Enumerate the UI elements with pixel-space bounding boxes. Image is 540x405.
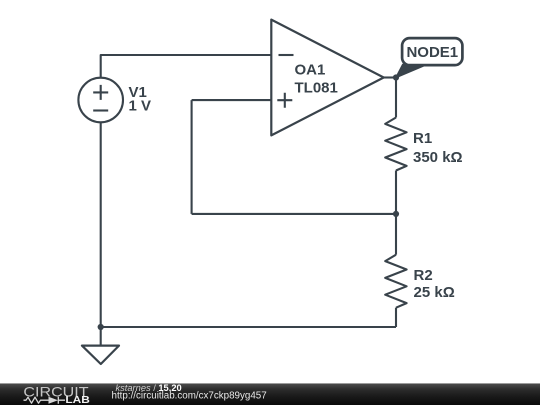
junction dot at op-amp output: [393, 74, 399, 80]
svg-text:http://circuitlab.com/cx7ckp89: http://circuitlab.com/cx7ckp89yg457: [112, 391, 267, 402]
junction dot at ground: [98, 324, 104, 330]
node NODE1 flag box: [402, 38, 462, 65]
voltage source V1: [78, 78, 123, 123]
svg-text:R2: R2: [414, 267, 433, 284]
footer top hairline: [0, 383, 540, 384]
wire non-inverting input stub: [192, 99, 272, 101]
wire bottom return to V1: [101, 326, 396, 328]
op-amp non-inverting input plus sign: [277, 93, 292, 108]
wire R2 bottom lead: [395, 308, 397, 327]
V1 plus sign: [93, 85, 108, 100]
wire V1 bottom to ground junction: [100, 122, 102, 327]
resistor R1 zigzag: [385, 118, 406, 171]
svg-text:25 kΩ: 25 kΩ: [414, 284, 455, 301]
svg-text:OA1: OA1: [295, 62, 326, 79]
op-amp OA1 triangle: [271, 20, 383, 136]
svg-text:NODE1: NODE1: [406, 44, 458, 61]
wire feedback vertical: [191, 100, 193, 214]
op-amp inverting input minus sign: [279, 54, 294, 56]
node NODE1 pointer wedge: [396, 64, 427, 77]
svg-text:LAB: LAB: [65, 395, 89, 405]
resistor R2 zigzag: [385, 255, 406, 308]
wire R2 top lead: [395, 214, 397, 255]
svg-text:350 kΩ: 350 kΩ: [413, 149, 463, 166]
wire V1 top to op-amp inverting input: [101, 55, 272, 78]
logo diode symbol: [49, 397, 59, 404]
wire op-amp output to node: [384, 76, 396, 78]
svg-text:R1: R1: [413, 130, 432, 147]
footer bar: [0, 384, 540, 405]
svg-text:1 V: 1 V: [129, 98, 152, 115]
wire R1 top lead: [395, 78, 397, 118]
V1 minus sign: [93, 109, 108, 111]
wire feedback horizontal to R1-R2 junction: [192, 213, 396, 215]
wire ground stub: [100, 327, 102, 346]
ground symbol: [82, 346, 119, 364]
logo resistor squiggle: [24, 397, 46, 403]
junction dot between R1 and R2: [393, 211, 399, 217]
svg-text:TL081: TL081: [295, 80, 338, 97]
wire R1 bottom lead: [395, 171, 397, 214]
